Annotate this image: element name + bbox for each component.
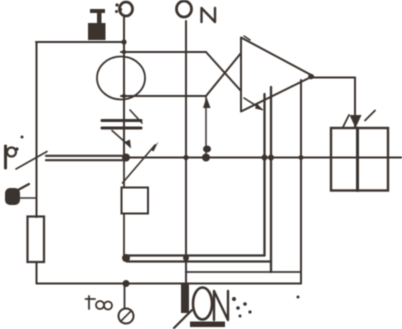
capacitor arrowhead: [125, 140, 132, 149]
capacitor arrow lower: [112, 131, 130, 147]
wire thick pair horizontal upper: [127, 254, 265, 256]
bottom label t: [86, 296, 113, 310]
arrowhead on faint vertical: [203, 97, 211, 108]
bottom label N: [214, 291, 228, 320]
wire faint vertical to bus: [205, 96, 207, 158]
node bus-N: [183, 155, 188, 160]
node bus-mid: [202, 154, 210, 162]
op-amp corner tick: [244, 36, 250, 40]
node window bottom: [122, 94, 126, 98]
wire input diagonal left: [16, 152, 47, 170]
wire main bus single: [126, 156, 402, 158]
mark left of arrow: [343, 115, 349, 127]
capacitor diag stroke upper: [130, 110, 142, 123]
display box B1: [331, 128, 388, 191]
node R2 bottom: [122, 254, 130, 262]
node bottom bus-D: [123, 280, 130, 287]
wire crossover lower-to-upper: [206, 53, 241, 96]
bottom center slash: [174, 310, 192, 328]
node dots: [121, 39, 303, 298]
wire bus to R2: [123, 158, 125, 188]
wire resistor bottom to bus corner: [36, 263, 38, 284]
wire diagonal op-amp input to pair: [244, 98, 262, 110]
terminal block bar: [90, 9, 105, 13]
wire top-left horizontal: [36, 41, 124, 43]
wire lower window lead: [121, 95, 206, 97]
display box midline: [356, 128, 359, 191]
node at wire/lead junction: [121, 39, 126, 44]
node N-thick cross: [183, 255, 189, 261]
node window top: [122, 50, 126, 54]
capacitor C1 plate lower: [102, 127, 141, 130]
label D ring: [120, 2, 133, 16]
wire vertical N lead: [185, 21, 187, 294]
wire R2 to node: [123, 214, 125, 256]
op-amp U1: [241, 38, 313, 112]
wire main bus double segment lower: [46, 159, 127, 161]
variable arrowhead: [151, 142, 159, 152]
wire upper window lead: [121, 51, 206, 53]
capacitor C1 plate upper: [102, 119, 141, 122]
wire vertical D lead: [123, 16, 125, 158]
label epsilon left lower: [5, 184, 37, 205]
resistor R2 (box): [122, 188, 149, 214]
node bus-V3: [299, 155, 304, 160]
label O ring top: [177, 1, 192, 17]
bottom specks right: [232, 297, 252, 318]
terminal block stem: [97, 13, 102, 23]
variable arrow across R2 lead: [123, 145, 156, 183]
wire op-amp output vertical: [354, 78, 356, 129]
node bus-D: [122, 154, 130, 162]
wire op-amp output horizontal: [313, 77, 355, 79]
speck below corner: [297, 296, 300, 299]
terminal circle bottom-left: [119, 284, 134, 324]
bottom label underline bar: [190, 322, 225, 328]
arrow tick: [365, 111, 375, 121]
label N top: [202, 8, 216, 22]
transducer ellipse E1: [97, 57, 145, 100]
wire left rail vertical: [36, 42, 38, 217]
wire thick pair vertical left: [263, 94, 265, 256]
node bus-pair-left: [262, 155, 268, 161]
bottom center thick stub: [181, 284, 189, 313]
vertex blob: [308, 74, 314, 80]
label P left: [6, 136, 24, 169]
wire crossover upper-to-lower: [206, 52, 241, 91]
node blob above bus-mid: [203, 146, 211, 153]
resistor R1 (left, box style): [28, 217, 45, 263]
bottom label O ring: [193, 288, 212, 320]
arrowhead on pair diagonal: [255, 104, 264, 111]
wire main bus double segment upper: [46, 155, 127, 157]
wire vertical from op-amp to bottom bus: [300, 80, 302, 284]
label D specks: [115, 3, 122, 13]
node bus-pair-right: [268, 155, 274, 161]
terminal block body: [88, 23, 106, 40]
wire thick pair horizontal lower: [127, 260, 271, 262]
wire horizontal mid-low return: [186, 271, 301, 273]
wire bottom bus: [37, 283, 302, 285]
wire thick pair vertical right: [270, 87, 272, 272]
arrowhead into display box: [350, 115, 362, 128]
